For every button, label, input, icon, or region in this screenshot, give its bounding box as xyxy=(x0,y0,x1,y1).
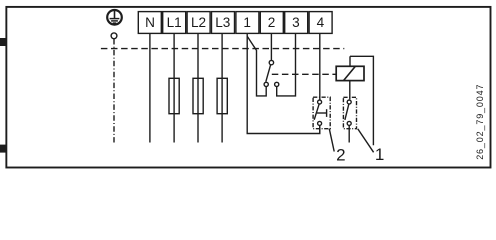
svg-text:1: 1 xyxy=(243,15,251,30)
svg-text:2: 2 xyxy=(336,146,345,165)
svg-text:3: 3 xyxy=(292,15,300,30)
svg-text:L2: L2 xyxy=(191,15,206,30)
svg-text:4: 4 xyxy=(317,15,325,30)
svg-text:2: 2 xyxy=(268,15,276,30)
svg-text:L3: L3 xyxy=(215,15,230,30)
svg-text:1: 1 xyxy=(375,145,384,164)
svg-text:26_02_79_0047: 26_02_79_0047 xyxy=(475,84,485,160)
svg-text:L1: L1 xyxy=(167,15,182,30)
svg-text:N: N xyxy=(145,15,155,30)
